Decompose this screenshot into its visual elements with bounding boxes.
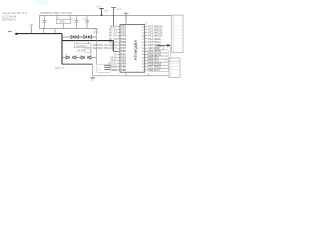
regulator U2 7805: [57, 19, 71, 23]
capacitor C2: [75, 15, 78, 28]
wire label box stub left: [76, 41, 78, 44]
highlight rect: [36, 0, 48, 5]
wire to top diodes: [62, 36, 72, 38]
power flag VCC red: [124, 13, 129, 20]
wire right vertical: [95, 29, 97, 65]
wire top row right: [92, 36, 97, 38]
wire stub below label: [90, 48, 92, 56]
wire return bottom: [62, 63, 93, 65]
svg-text:KEYPAD_DN (ADC7): KEYPAD_DN (ADC7): [93, 47, 117, 50]
IC right pin stubs: [145, 27, 148, 70]
wire vcc stub to IC: [125, 20, 127, 24]
wire vertical trunk: [61, 34, 63, 65]
label VCC GND: [93, 28, 99, 34]
wire J1 to J2: [170, 45, 172, 58]
label minus: [8, 30, 12, 33]
IC right labels: [148, 25, 162, 71]
wire label box stub right: [87, 41, 89, 44]
wire mid bottom row: [76, 56, 81, 58]
ground: [90, 77, 95, 80]
wire crystal drop: [92, 64, 94, 76]
wire bottom rail: [93, 75, 170, 77]
keypad label box: [75, 44, 92, 48]
diode D4 pair: [81, 56, 91, 59]
diode D3 pair: [66, 56, 76, 59]
node top row junction: [81, 36, 82, 37]
wire left drop: [39, 15, 41, 28]
svg-text:GND: GND: [93, 31, 99, 34]
wire supply gnd rail: [40, 28, 97, 30]
wire top rail: [40, 14, 184, 16]
IC right pin numbers: [142, 26, 145, 71]
connector J2: [169, 58, 180, 78]
wire bottom row right: [91, 56, 96, 58]
IC U1 ATmega8A box: [120, 25, 145, 73]
wire bus A: [16, 33, 63, 35]
wire mid top row: [79, 36, 84, 38]
IC left pin stubs: [117, 27, 120, 70]
wire bus B drop: [112, 41, 114, 52]
node junction dot: [15, 33, 17, 35]
svg-text:1N4148: 1N4148: [76, 50, 85, 53]
wire left to bottom row: [62, 56, 66, 58]
svg-text:PB6: PB6: [121, 68, 126, 72]
node input plus: [30, 25, 33, 34]
IC left pin names: [121, 24, 127, 71]
net label boxes right: [148, 50, 168, 72]
capacitor C3: [85, 15, 88, 28]
svg-text:ATmega8A: ATmega8A: [133, 40, 138, 61]
wire bus B: [62, 40, 113, 42]
wire J2 stub: [165, 59, 169, 61]
svg-text:PWR: PWR: [96, 6, 101, 8]
svg-text:AVR 8mA-1: AVR 8mA-1: [2, 18, 17, 22]
svg-text:+5V: +5V: [104, 9, 109, 12]
svg-text:c: c: [88, 54, 89, 56]
power flag +5V: [99, 9, 104, 16]
diode D2 pair: [84, 35, 92, 38]
diode D1 pair: [71, 35, 79, 38]
svg-text:AVCC: AVCC: [117, 8, 123, 11]
svg-text:GND: GND: [111, 69, 117, 72]
svg-text:LM7805CT IN9V +5V 0.5A: LM7805CT IN9V +5V 0.5A: [40, 11, 72, 15]
wire net arrow: [157, 44, 167, 46]
svg-text:22pF x2: 22pF x2: [55, 67, 64, 70]
svg-text:7805: 7805: [59, 21, 65, 24]
svg-text:KEYPAD: KEYPAD: [77, 45, 87, 48]
title text block: [2, 11, 27, 21]
crystal box: [97, 65, 111, 73]
power flag AVCC: [111, 8, 116, 27]
wire drop B: [54, 29, 56, 34]
wire to IC pin: [113, 50, 120, 52]
label S marks: [66, 54, 89, 56]
wire drop A: [43, 29, 45, 34]
node osc box: [156, 47, 164, 50]
wire IC gnd stub: [125, 72, 127, 76]
wire xtal stubs: [111, 67, 120, 70]
IC left outside labels: [93, 25, 118, 71]
capacitor C1: [43, 15, 46, 28]
crystal Y1: [104, 66, 110, 70]
connector J1: [172, 15, 183, 52]
